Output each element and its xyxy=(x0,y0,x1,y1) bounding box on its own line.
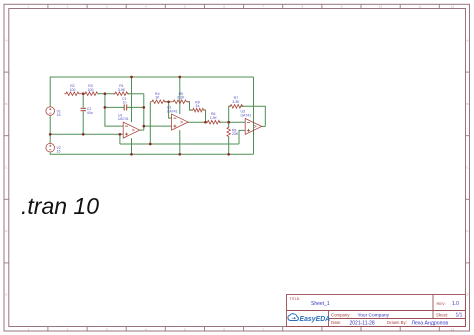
svg-text:Леха Андропов: Леха Андропов xyxy=(412,321,449,327)
wire ground rail A xyxy=(120,143,239,145)
node U1 Vminus on negative rail xyxy=(130,153,133,156)
wire R7 riser xyxy=(229,106,231,122)
resistor R8 vertical xyxy=(227,127,231,138)
svg-text:3.3K: 3.3K xyxy=(232,100,240,104)
wire R8 top xyxy=(228,122,230,127)
wire U3 noninverting drop xyxy=(239,130,245,144)
node C1 left tee xyxy=(104,106,107,109)
resistor R2 xyxy=(64,92,83,96)
svg-text:Date:: Date: xyxy=(331,320,341,325)
wire U1 Vminus xyxy=(131,138,133,154)
op-amp U3 xyxy=(245,118,262,134)
svg-text:B: B xyxy=(467,102,469,106)
resistor R1 xyxy=(113,92,129,96)
wire R3 to feedback node xyxy=(98,93,116,95)
svg-text:1.3K: 1.3K xyxy=(210,116,218,120)
wire U3 output xyxy=(262,125,266,127)
svg-text:.tran 10: .tran 10 xyxy=(21,193,99,219)
node R4-R5 junction xyxy=(167,100,170,103)
svg-text:1.0: 1.0 xyxy=(452,301,459,307)
wire U2 output row xyxy=(188,121,207,123)
svg-text:15: 15 xyxy=(57,113,61,117)
svg-text:B: B xyxy=(5,102,7,106)
wire top supply rail xyxy=(50,77,253,106)
resistor R9 xyxy=(191,108,206,112)
resistor R5 xyxy=(172,100,190,104)
svg-text:10: 10 xyxy=(379,5,383,9)
wire inverting input drop U1 xyxy=(105,94,123,126)
svg-text:E: E xyxy=(5,293,7,297)
svg-text:1k: 1k xyxy=(196,104,200,108)
svg-text:100: 100 xyxy=(88,88,94,92)
node R8 on negative rail xyxy=(227,153,230,156)
wire ground row to U1 noninverting input xyxy=(50,133,123,135)
svg-text:Sheet_1: Sheet_1 xyxy=(311,301,330,307)
node U2 output xyxy=(204,121,207,124)
svg-text:15: 15 xyxy=(57,150,61,154)
capacitor C2 xyxy=(81,108,86,110)
svg-text:UA741: UA741 xyxy=(167,109,178,113)
svg-text:3.9K: 3.9K xyxy=(118,88,126,92)
svg-text:UA741: UA741 xyxy=(241,114,252,118)
wire C2 bottom xyxy=(82,111,84,134)
wire U3 supply crossover xyxy=(253,77,255,154)
svg-text:C: C xyxy=(5,166,7,170)
wire R5 right corner xyxy=(187,102,192,110)
svg-text:1n: 1n xyxy=(123,101,127,105)
wire R8 bottom to negative rail xyxy=(228,137,230,154)
svg-text:1K: 1K xyxy=(155,96,160,100)
svg-text:2021-11-28: 2021-11-28 xyxy=(350,320,375,326)
wire R7 right to feedback loop xyxy=(240,106,265,126)
svg-text:1/1: 1/1 xyxy=(456,313,463,319)
node R2-R3-C2 xyxy=(82,92,85,95)
TITLE BLOCK xyxy=(287,295,466,327)
svg-text:TITLE:: TITLE: xyxy=(290,297,301,301)
node C2 bottom xyxy=(82,133,85,136)
svg-text:C: C xyxy=(466,166,468,170)
resistor R6 xyxy=(206,120,222,124)
wire feedback vertical U1 xyxy=(143,94,145,130)
wire U2 Vminus xyxy=(179,130,181,154)
svg-text:REV:: REV: xyxy=(437,301,446,306)
op-amp U1 xyxy=(123,122,140,138)
node ground drop xyxy=(119,133,122,136)
wire V1 bottom to ground row xyxy=(49,116,51,135)
svg-text:Company:: Company: xyxy=(331,312,351,317)
EasyEDA logo xyxy=(288,314,330,324)
wire C1 left branch xyxy=(105,106,124,108)
wire U1 output to U2 noninverting input xyxy=(144,125,172,127)
svg-text:Sheet:: Sheet: xyxy=(436,313,448,318)
node U2 Vplus on rail xyxy=(178,76,181,79)
svg-text:Drawn By:: Drawn By: xyxy=(387,320,407,325)
svg-text:D: D xyxy=(5,229,7,233)
wire U3 inverting input xyxy=(229,121,246,123)
voltage source V2 xyxy=(46,143,55,152)
junction dots xyxy=(49,76,230,156)
wire C2 top xyxy=(82,94,84,108)
wire R1 right to feedback vertical xyxy=(128,93,144,95)
wire R4 to node xyxy=(164,101,171,103)
svg-text:12: 12 xyxy=(451,327,455,331)
node V1-V2 ground xyxy=(49,133,52,136)
svg-text:D: D xyxy=(466,229,468,233)
wire U2 Vplus xyxy=(179,77,181,114)
wire R6 to U3 inverting node xyxy=(219,121,229,123)
capacitor C1 xyxy=(124,104,127,110)
svg-text:100: 100 xyxy=(70,88,76,92)
wire R9 drop to U2 output xyxy=(204,110,206,122)
svg-text:40n: 40n xyxy=(87,111,93,115)
node U1 Vplus on rail xyxy=(130,76,133,79)
node U3 inverting xyxy=(227,121,230,124)
svg-text:9.1K: 9.1K xyxy=(177,96,185,100)
svg-text:EasyEDA: EasyEDA xyxy=(300,316,331,323)
wire C1 right branch xyxy=(127,106,144,108)
resistor R3 xyxy=(83,92,97,96)
node C1 right tee xyxy=(142,106,145,109)
wire R4 ground drop xyxy=(149,102,151,144)
svg-text:A: A xyxy=(5,38,7,42)
svg-text:UA741: UA741 xyxy=(118,117,129,121)
node U2 Vminus on negative rail xyxy=(178,153,181,156)
resistor R4 xyxy=(150,100,168,104)
svg-text:Your Company: Your Company xyxy=(358,313,390,319)
resistor R7 xyxy=(229,105,244,109)
wire V2 bottom to negative rail xyxy=(50,152,253,154)
svg-text:11: 11 xyxy=(418,5,421,9)
node R3-R1 inverting xyxy=(104,92,107,95)
wire U1 Vplus xyxy=(131,77,133,122)
voltage source V1 xyxy=(46,107,55,116)
wire U2 inverting jog xyxy=(169,102,172,118)
wire U1 output xyxy=(140,129,144,131)
node U1 output takeoff xyxy=(142,125,145,128)
svg-text:E: E xyxy=(467,293,469,297)
svg-text:12: 12 xyxy=(451,5,455,9)
svg-text:A: A xyxy=(467,38,469,42)
op-amp U2 xyxy=(172,114,189,130)
node R4 on rail A xyxy=(149,143,152,146)
component labels xyxy=(57,84,252,154)
wire V2 top xyxy=(49,134,51,143)
svg-text:20K: 20K xyxy=(232,132,239,136)
wire ground node drop xyxy=(119,134,121,144)
